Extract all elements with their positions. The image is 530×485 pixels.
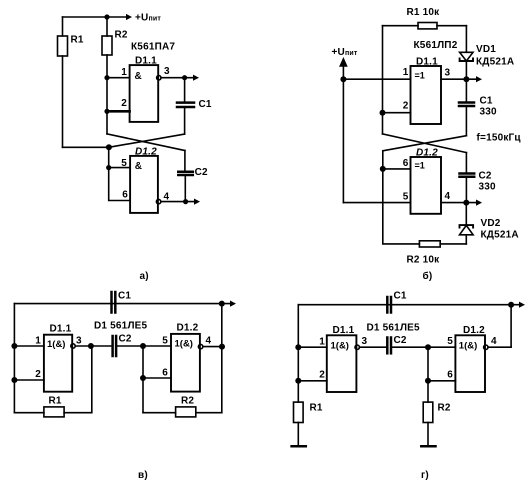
node pin3 arrow: [476, 76, 482, 82]
svg-text:C1: C1: [480, 96, 493, 107]
wire top rail: [298, 304, 520, 306]
node junction pin3/R1: [88, 343, 94, 349]
capacitor C2: [184, 151, 186, 171]
node output bubble D1.2: [156, 199, 160, 203]
svg-text:6: 6: [403, 158, 409, 169]
wire +U vertical: [342, 64, 344, 203]
resistor R1: [58, 36, 68, 56]
node junction R1/C1/D1.2: [106, 144, 112, 150]
svg-text:4: 4: [164, 192, 170, 203]
svg-text:2: 2: [319, 370, 325, 381]
wire pin3 to C2: [75, 345, 111, 347]
svg-text:3: 3: [445, 68, 451, 79]
svg-text:D1.1: D1.1: [416, 57, 438, 68]
svg-text:4: 4: [206, 336, 212, 347]
node pin4 arrow: [476, 200, 482, 206]
op-amp U4 gate D1.1 body: [327, 335, 357, 392]
wire crossing W2 (C1 to inputs D1.2): [109, 134, 185, 147]
resistor R2: [419, 241, 440, 247]
svg-text:1(&): 1(&): [331, 341, 349, 352]
op-amp U2 gate D1.2 body: [411, 157, 442, 214]
capacitor C1: [465, 79, 467, 101]
wire right column: [221, 304, 223, 413]
svg-text:в): в): [138, 470, 148, 481]
wire left column: [13, 304, 15, 413]
wire top left segment: [383, 25, 419, 27]
wire crossing W1 (inputs D1.1 to C2): [107, 134, 185, 151]
node junction R2/top rail: [104, 14, 109, 19]
wire pin5: [343, 202, 410, 204]
wire R2 bottom to pin1: [106, 55, 108, 78]
svg-text:=1: =1: [415, 71, 425, 81]
svg-text:1: 1: [35, 336, 41, 347]
wire pin6: [428, 380, 455, 382]
svg-text:+Uпит: +Uпит: [135, 13, 161, 24]
svg-text:D1.2: D1.2: [416, 148, 438, 159]
capacitor C1: [386, 297, 389, 313]
svg-text:D1.2: D1.2: [177, 323, 199, 334]
svg-text:1: 1: [403, 67, 409, 78]
capacitor C1: [184, 78, 186, 102]
op-amp U3 gate D1.1 body: [44, 335, 72, 392]
svg-text:1(&): 1(&): [175, 339, 193, 350]
svg-text:D1.1: D1.1: [333, 325, 355, 336]
capacitor C2: [111, 336, 114, 356]
svg-text:б): б): [423, 270, 433, 282]
svg-text:1(&): 1(&): [459, 341, 477, 352]
wire R2 to right column: [196, 412, 222, 414]
svg-text:=1: =1: [415, 161, 425, 171]
resistor R2: [102, 36, 112, 55]
node junction pin2: [295, 378, 301, 384]
node junction pin4: [219, 344, 225, 350]
wire pin2: [298, 380, 327, 382]
node junction pin5: [106, 165, 111, 170]
ground R2: [421, 445, 435, 448]
wire crossing W1 (pin2 node to C2): [383, 134, 467, 153]
wire C2 to pin5: [391, 346, 455, 348]
op-amp U1 gate D1.2 body: [130, 156, 158, 213]
svg-text:R1: R1: [310, 403, 323, 414]
svg-text:C1: C1: [199, 99, 212, 110]
node top rail arrow: [230, 301, 236, 307]
wire right column: [510, 305, 512, 348]
node junction pin4: [463, 200, 469, 206]
svg-text:D1.2: D1.2: [463, 325, 485, 336]
wire pin2: [383, 112, 411, 114]
svg-text:6: 6: [447, 370, 453, 381]
wire top right segment: [437, 25, 466, 27]
svg-text:2: 2: [35, 369, 41, 380]
wire pin1: [298, 346, 327, 348]
resistor R2: [423, 402, 433, 422]
svg-text:C1: C1: [394, 291, 407, 302]
svg-text:6: 6: [122, 190, 128, 201]
svg-text:D1 561ЛЕ5: D1 561ЛЕ5: [94, 321, 148, 332]
wire R1 bottom to crossing: [62, 56, 64, 147]
wire mid bottom to R2: [143, 412, 176, 414]
svg-text:&: &: [135, 71, 142, 82]
svg-text:D1 561ЛЕ5: D1 561ЛЕ5: [367, 323, 421, 334]
svg-text:К561ЛП2: К561ЛП2: [414, 40, 458, 51]
node junction pin3: [463, 76, 469, 82]
node junction pin5: [425, 344, 431, 350]
svg-text:R2 10к: R2 10к: [407, 255, 441, 266]
node output bubble D1.2: [484, 345, 488, 349]
svg-text:г): г): [421, 470, 429, 481]
node junction pin6: [380, 166, 386, 172]
svg-text:C2: C2: [479, 171, 492, 182]
wire R1 top: [62, 17, 64, 36]
node pin3 arrow: [193, 75, 199, 81]
svg-text:3: 3: [362, 336, 368, 347]
svg-text:VD2: VD2: [481, 218, 501, 229]
wire pin5 column: [142, 346, 144, 413]
svg-text:D1.2: D1.2: [135, 147, 157, 158]
svg-text:D1.1: D1.1: [50, 324, 72, 335]
wire bottom left to R1: [14, 412, 44, 414]
svg-text:+Uпит: +Uпит: [332, 47, 358, 58]
svg-text:1: 1: [121, 67, 127, 78]
node junction pin6: [140, 375, 146, 381]
svg-text:2: 2: [403, 101, 409, 112]
wire R2 to ground: [427, 423, 429, 447]
node junction pin5: [140, 343, 146, 349]
node +U rail arrow: [126, 14, 132, 20]
wire pin6: [109, 168, 130, 201]
wire pin6: [383, 151, 411, 169]
svg-text:КД521А: КД521А: [476, 57, 514, 68]
node pin4 arrow: [194, 199, 200, 205]
svg-text:5: 5: [447, 336, 453, 347]
node junction pin2: [104, 109, 109, 114]
wire pin3 to C2: [359, 346, 387, 348]
wire pin6 column to bottom rail: [383, 169, 420, 244]
wire pin6: [143, 377, 171, 379]
node junction top right: [219, 301, 225, 307]
node junction pin2: [380, 110, 386, 116]
wire R2 to VD2: [440, 243, 466, 245]
node output bubble D1.1: [157, 76, 161, 80]
node junction +U/pin1: [340, 76, 346, 82]
wire pin4 to right column: [203, 346, 222, 348]
node junction pin1: [11, 343, 17, 349]
diode VD2: [465, 203, 467, 225]
svg-text:3: 3: [164, 66, 170, 77]
svg-text:5: 5: [121, 158, 127, 169]
node junction pin2: [11, 377, 17, 383]
svg-text:R1: R1: [49, 396, 62, 407]
capacitor C1: [110, 292, 113, 313]
wire left column: [297, 305, 299, 402]
wire pin5 column: [427, 347, 429, 402]
capacitor C2: [465, 153, 467, 173]
svg-text:5: 5: [162, 336, 168, 347]
wire pin2: [107, 110, 130, 113]
resistor R1: [44, 407, 64, 417]
wire R2 top: [106, 17, 108, 36]
node junction pin3/C1: [182, 75, 187, 80]
capacitor C2: [386, 338, 389, 354]
svg-text:4: 4: [491, 336, 497, 347]
diode VD1: [465, 26, 467, 52]
wire pin4 output: [441, 202, 477, 204]
wire D1.1 input column: [106, 78, 108, 134]
svg-text:1: 1: [319, 337, 325, 348]
svg-text:R2: R2: [115, 30, 128, 41]
svg-text:6: 6: [162, 368, 168, 379]
node output bubble D1.1: [355, 345, 359, 349]
node junction pin1: [104, 75, 109, 80]
wire pin5: [109, 147, 130, 167]
node output bubble D1.1: [71, 344, 75, 348]
svg-text:3: 3: [76, 336, 82, 347]
wire pin4 to right column: [488, 346, 511, 348]
svg-text:330: 330: [479, 182, 497, 193]
svg-text:&: &: [135, 161, 142, 172]
power +U arrow: [340, 59, 346, 66]
wire pin3 output: [441, 78, 477, 80]
svg-text:4: 4: [445, 191, 451, 202]
resistor R2: [176, 407, 196, 417]
node junction pin6: [425, 378, 431, 384]
wire crossing W2 (C1 to pin6 node): [383, 136, 467, 151]
svg-text:330: 330: [480, 107, 498, 118]
wire pin2: [14, 379, 44, 381]
wire +U rail: [63, 16, 128, 18]
svg-text:КД521А: КД521А: [481, 230, 519, 241]
node junction pin4/C2: [183, 199, 188, 204]
node junction top right: [508, 302, 514, 308]
node junction pin1: [295, 344, 301, 350]
wire pin1: [14, 345, 44, 347]
resistor R1: [418, 23, 437, 29]
resistor R1: [294, 402, 304, 422]
wire C2 to pin5: [116, 345, 171, 347]
svg-text:R2: R2: [181, 396, 194, 407]
node output bubble D1.2: [198, 344, 202, 348]
node top rail arrow: [519, 302, 525, 308]
wire R1 to pin3 node: [64, 346, 92, 413]
wire top rail: [14, 303, 231, 305]
svg-text:VD1: VD1: [476, 44, 496, 55]
wire left vertical R1 to pin2: [382, 26, 384, 134]
wire R1 to ground: [297, 423, 299, 447]
op-amp U1 gate D1.1 body: [130, 65, 159, 122]
op-amp U2 gate D1.1 body: [411, 66, 442, 124]
svg-text:2: 2: [121, 98, 127, 109]
wire pin1: [343, 78, 410, 80]
svg-text:К561ПА7: К561ПА7: [131, 42, 175, 53]
svg-text:C1: C1: [118, 291, 131, 302]
wire R1 to D1.2 inputs: [63, 146, 109, 148]
svg-text:C2: C2: [394, 335, 407, 346]
svg-text:R1: R1: [71, 35, 84, 46]
op-amp U3 gate D1.2 body: [171, 334, 200, 392]
ground R1: [292, 445, 306, 448]
svg-text:f=150кГц: f=150кГц: [477, 133, 522, 144]
svg-text:R1 10к: R1 10к: [407, 7, 441, 18]
svg-text:D1.1: D1.1: [135, 56, 157, 67]
svg-text:R2: R2: [438, 403, 451, 414]
wire pin1: [107, 77, 130, 79]
wire pin3 output: [161, 77, 194, 79]
op-amp U4 gate D1.2 body: [455, 335, 485, 392]
svg-text:1(&): 1(&): [47, 339, 65, 350]
wire pin4 output: [161, 201, 195, 203]
svg-text:C2: C2: [195, 167, 208, 178]
svg-text:C2: C2: [119, 334, 132, 345]
svg-text:5: 5: [403, 192, 409, 203]
svg-text:а): а): [140, 271, 149, 282]
